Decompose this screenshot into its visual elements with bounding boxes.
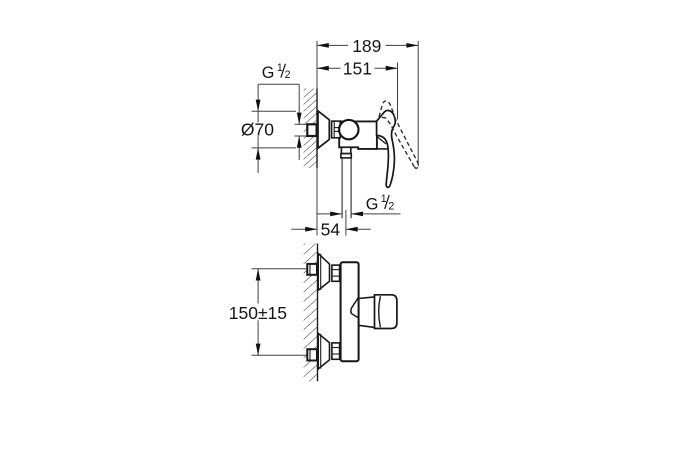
svg-text:G: G	[262, 64, 275, 82]
outlet pipe lines	[341, 158, 343, 218]
wall hatch (top view)	[304, 89, 317, 169]
svg-text:1: 1	[277, 62, 283, 74]
wall hatch (bottom view)	[304, 244, 318, 382]
svg-text:151: 151	[343, 59, 372, 79]
extension line top of escutcheon	[252, 110, 297, 112]
lever handle open position (dashed)	[379, 101, 418, 168]
body block (top view)	[339, 121, 377, 148]
wall extension line below top view	[316, 168, 318, 236]
svg-text:2: 2	[388, 201, 394, 213]
label G 1/2 (top, wall connection)	[262, 62, 291, 82]
top wall nut (bottom view)	[307, 264, 317, 275]
dimension 189	[317, 36, 418, 56]
pipe centre extension line	[345, 210, 347, 236]
handle stem (bottom view)	[359, 297, 375, 328]
extension line left (wall plane, for 189/151)	[316, 41, 318, 89]
leader lines for outlet G 1/2	[318, 212, 401, 217]
dimension line O70 (escutcheon diameter)	[241, 84, 274, 173]
dimension 54	[291, 219, 371, 239]
extension line right of 151 (closed handle)	[397, 63, 399, 120]
shower outlet stub	[341, 147, 350, 153]
outlet flange	[341, 154, 351, 158]
extension line bottom of escutcheon	[252, 147, 297, 149]
bottom escutcheon cone (bottom view)	[318, 333, 329, 369]
extension lines of nipple edges	[295, 123, 308, 125]
ball joint	[339, 120, 358, 139]
cartridge shelf line	[377, 148, 391, 150]
wall nipple (square inlet, top view)	[307, 124, 316, 136]
bottom wall nut (bottom view)	[307, 349, 317, 360]
handle knob (bottom view, end-on)	[375, 295, 397, 329]
bottom union rings	[332, 343, 340, 359]
svg-text:G: G	[366, 195, 379, 213]
escutcheon cone (top view)	[318, 111, 329, 148]
extension line right of 189 (handle tip)	[417, 41, 419, 166]
svg-text:2: 2	[285, 69, 291, 81]
dimension line G1/2 nipple	[297, 84, 302, 160]
cartridge dome arc (bottom view)	[351, 297, 359, 318]
svg-text:54: 54	[321, 219, 341, 239]
wall face line (bottom view)	[317, 244, 319, 382]
connection nut (between escutcheon and ball)	[332, 121, 341, 138]
body plate (bottom view)	[341, 262, 359, 361]
extension line at top union	[252, 268, 308, 270]
top union rings	[332, 265, 340, 281]
svg-text:1: 1	[381, 193, 387, 205]
leader line from G 1/2 label	[258, 83, 299, 85]
svg-text:150±15: 150±15	[229, 303, 287, 323]
svg-text:Ø70: Ø70	[241, 119, 274, 139]
lever handle (closed position)	[377, 110, 396, 187]
extension line at bottom union	[252, 354, 308, 356]
cartridge dome line	[377, 137, 386, 144]
wall face line (top view)	[316, 89, 318, 169]
top escutcheon cone (bottom view)	[318, 253, 329, 290]
dimension 151	[317, 59, 398, 79]
label G 1/2 (outlet, bottom of top view)	[366, 193, 395, 213]
svg-text:189: 189	[352, 36, 381, 56]
dimension 150+-15	[229, 269, 287, 356]
